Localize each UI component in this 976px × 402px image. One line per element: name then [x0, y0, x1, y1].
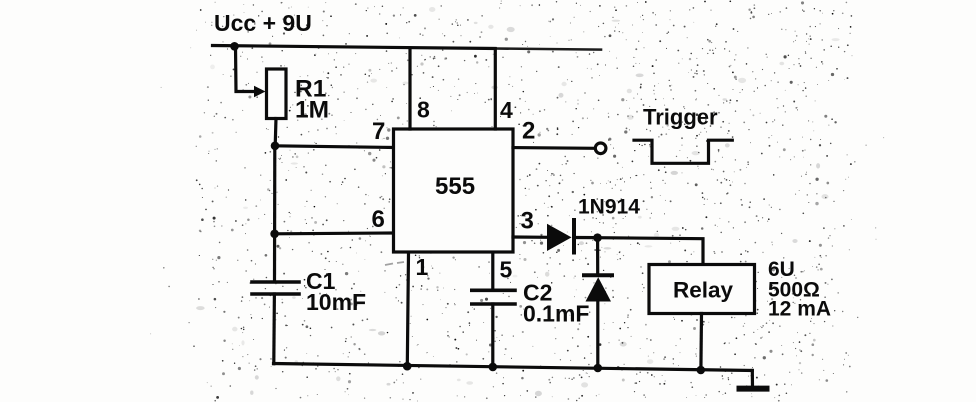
svg-text:8: 8 [417, 97, 430, 123]
ground symbol bar [740, 386, 767, 392]
wire R1 bottom to pin7 node [274, 119, 278, 146]
wire pin 1 to ground rail [407, 253, 408, 366]
svg-text:2: 2 [522, 118, 535, 145]
wire ground rail [274, 364, 753, 371]
wire ground stub [751, 371, 754, 388]
relay K1 box [649, 265, 755, 314]
op IC 555 box U1 [394, 129, 514, 252]
svg-text:5: 5 [500, 256, 513, 282]
svg-text:1N914: 1N914 [578, 196, 640, 219]
capacitor C2 bottom plate [472, 302, 515, 306]
svg-text:1: 1 [416, 254, 429, 280]
resistor R1 body [267, 69, 287, 119]
diode D2 cathode bar [584, 273, 612, 277]
wire node down to freewheel diode [596, 238, 599, 274]
node diode output junction [593, 233, 602, 242]
node pin1 ground junction [403, 362, 412, 371]
wire left bus pin7 to pin6 [273, 146, 276, 234]
svg-text:7: 7 [372, 118, 385, 145]
capacitor C1 bottom plate [252, 292, 299, 296]
node D2 ground junction [594, 364, 603, 373]
wire pin6 node down to C1 [273, 234, 276, 280]
svg-text:1M: 1M [295, 97, 329, 124]
diode D1 1N914 triangle [547, 224, 572, 251]
diode D1 cathode bar [572, 220, 576, 253]
svg-text:555: 555 [435, 173, 475, 200]
diode D2 triangle cathode-up [586, 277, 612, 301]
wire pin 5 to C2 [491, 253, 494, 288]
wire trigger pulse waveform [634, 140, 732, 163]
wire pin 3 to diode [513, 235, 548, 239]
node relay ground junction [697, 366, 706, 375]
svg-text:Relay: Relay [673, 278, 734, 303]
wire C2 bottom to ground rail [491, 304, 494, 367]
svg-text:Trigger: Trigger [643, 105, 718, 130]
wire pin 8 [408, 48, 411, 129]
wire pin 7 [275, 146, 394, 148]
node pin6 junction [270, 230, 279, 239]
svg-text:10mF: 10mF [306, 289, 366, 315]
wire pin 2 to trigger terminal [513, 146, 594, 150]
wire pin 4 [494, 49, 497, 129]
wire diode to node [576, 236, 598, 239]
node rail-left junction [230, 42, 239, 51]
wire C1 bottom to ground rail [272, 294, 276, 364]
svg-text:0.1mF: 0.1mF [523, 301, 589, 327]
wire node to relay top corner [598, 238, 704, 265]
capacitor C2 top plate [472, 288, 515, 292]
svg-text:4: 4 [500, 97, 513, 123]
node pin7 junction [271, 142, 280, 151]
node trigger open terminal [595, 143, 606, 154]
wire from rail to R1 wiper [236, 46, 257, 92]
svg-text:Ucc + 9U: Ucc + 9U [214, 10, 312, 36]
wiper arrow into R1 [254, 86, 266, 97]
wire pin 6 [275, 231, 394, 235]
node pin5 ground junction [489, 363, 498, 372]
svg-text:12 mA: 12 mA [768, 298, 831, 321]
wire relay bottom to ground rail [699, 314, 703, 371]
capacitor C1 top plate [252, 280, 299, 284]
wire D2 anode to ground rail [596, 302, 599, 369]
svg-text:3: 3 [521, 208, 534, 235]
wire Vcc power rail [213, 46, 496, 49]
svg-text:6: 6 [372, 206, 385, 233]
